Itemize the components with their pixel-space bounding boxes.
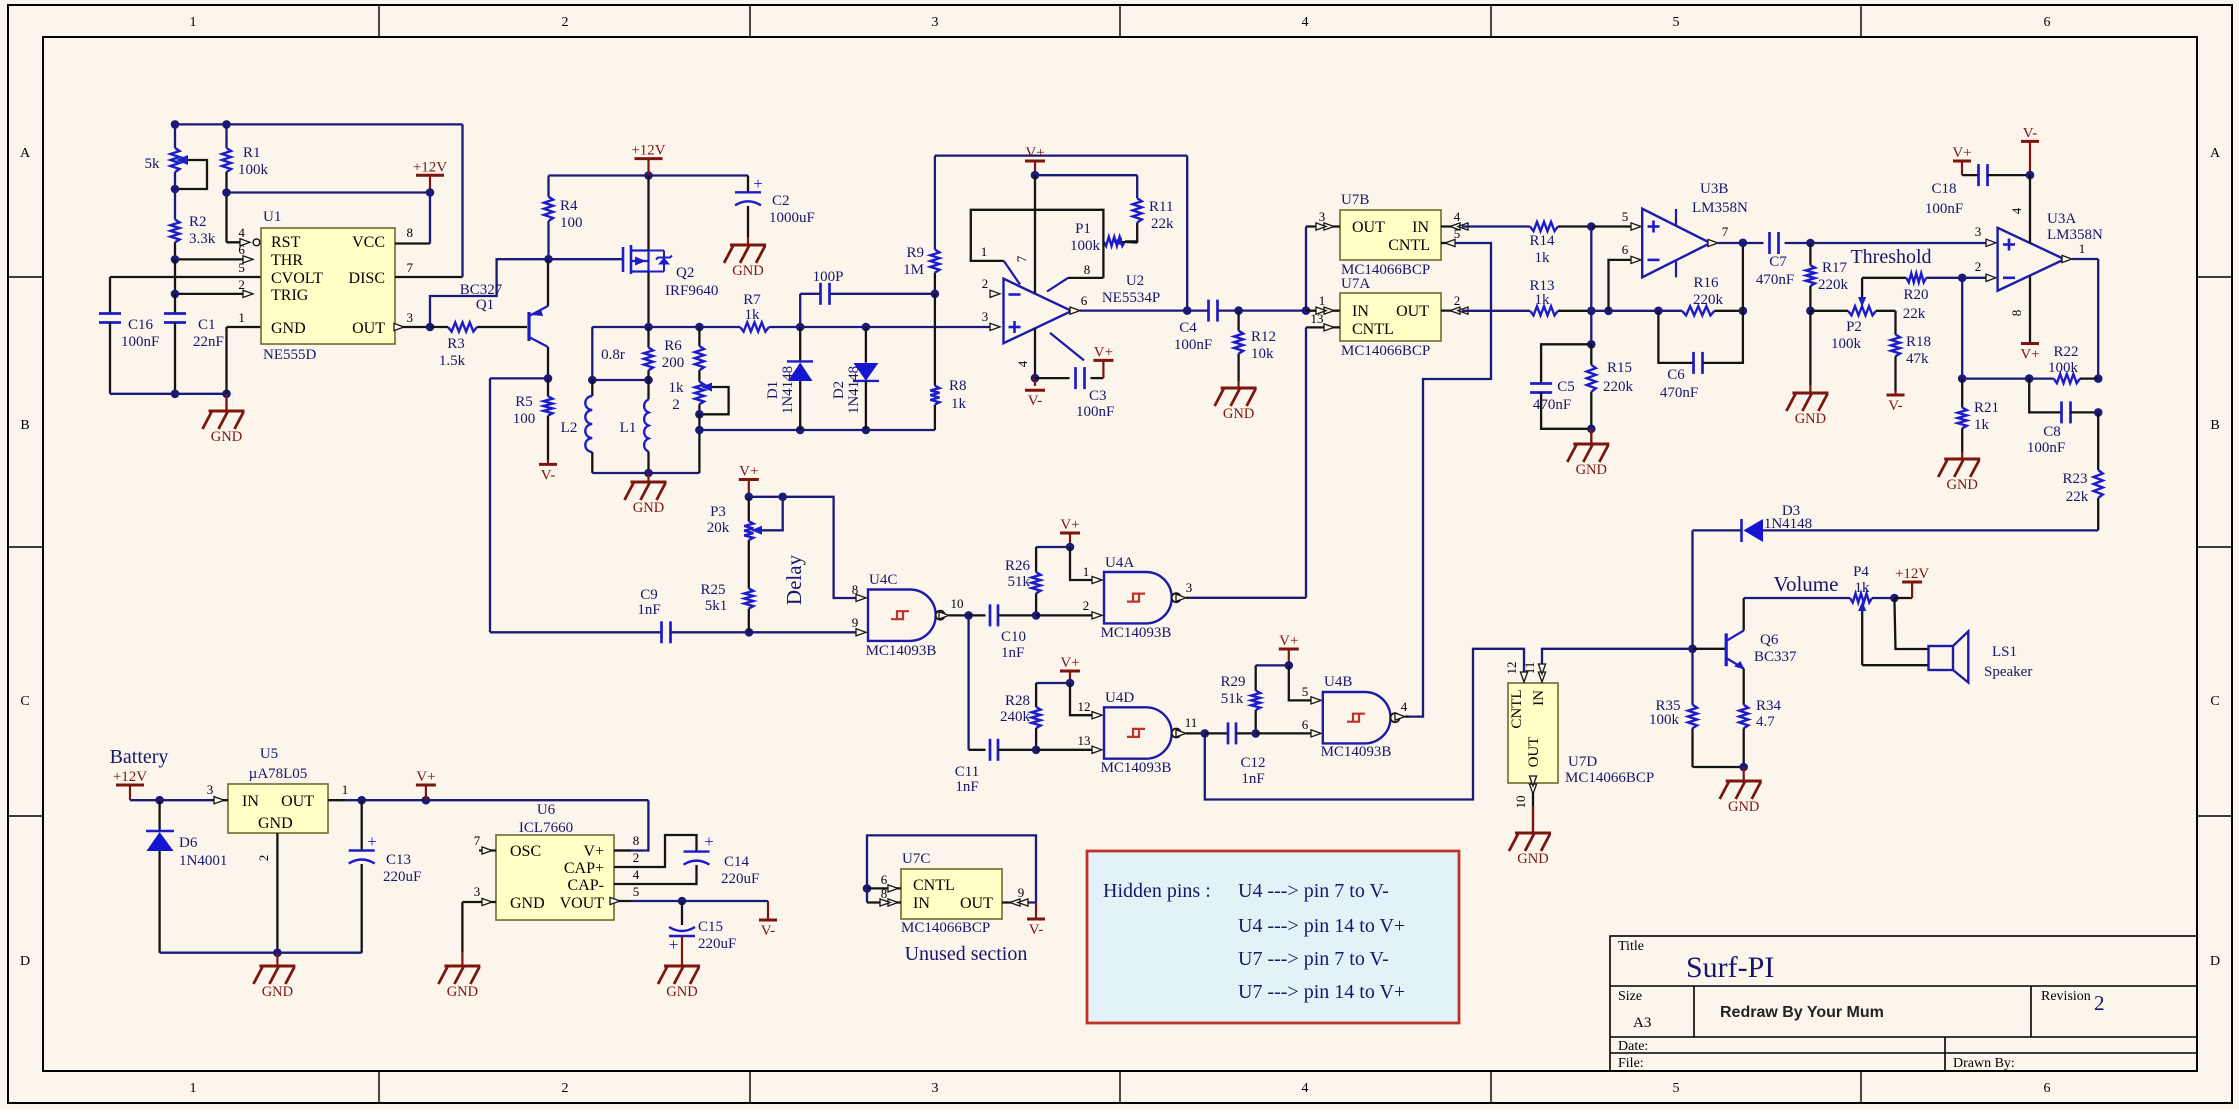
svg-text:1M: 1M xyxy=(903,262,924,278)
svg-text:8: 8 xyxy=(852,582,859,597)
svg-text:VCC: VCC xyxy=(352,234,385,251)
svg-text:Hidden pins :: Hidden pins : xyxy=(1103,880,1211,902)
wire gate node xyxy=(549,258,624,260)
wire top rail 555 xyxy=(175,123,463,125)
power V+ (U4B) xyxy=(1279,648,1299,651)
svg-text:V+: V+ xyxy=(739,464,758,480)
opamp U3B LM358N xyxy=(1642,209,1710,278)
svg-text:LM358N: LM358N xyxy=(1692,200,1748,216)
svg-text:8: 8 xyxy=(406,225,413,240)
svg-text:V-: V- xyxy=(1029,922,1043,938)
diode D3 1N4148 xyxy=(1744,519,1764,542)
wire U7C loop xyxy=(867,835,1036,902)
wire C11 to pin13 xyxy=(1036,749,1093,751)
capacitor C10 xyxy=(969,614,986,616)
svg-text:1N4148: 1N4148 xyxy=(780,366,796,414)
junction Q1 emitter xyxy=(544,374,553,383)
ic U7A MC14066BCP xyxy=(1340,293,1441,341)
pin 8 U6 xyxy=(614,849,631,851)
junction C9 xyxy=(745,628,754,637)
svg-text:V+: V+ xyxy=(1025,145,1044,161)
svg-text:Q6: Q6 xyxy=(1760,632,1779,648)
pin 7 U6 xyxy=(479,849,496,851)
svg-text:R16: R16 xyxy=(1693,275,1719,291)
svg-text:MC14093B: MC14093B xyxy=(1321,744,1392,760)
svg-text:NE555D: NE555D xyxy=(263,347,316,363)
trimmer 1k-2 xyxy=(695,382,704,405)
svg-text:13: 13 xyxy=(1078,733,1091,748)
capacitor C2 xyxy=(747,176,749,193)
svg-text:V-: V- xyxy=(1888,398,1902,414)
svg-text:OUT: OUT xyxy=(960,895,993,912)
junction C5-R15 xyxy=(1587,425,1596,434)
junction top rail left xyxy=(171,120,180,129)
svg-text:220k: 220k xyxy=(1818,277,1849,293)
svg-text:C13: C13 xyxy=(386,852,411,868)
svg-text:Size: Size xyxy=(1618,989,1642,1004)
svg-text:V+: V+ xyxy=(1279,633,1298,649)
svg-text:6: 6 xyxy=(1081,293,1088,308)
wire to U6 pin8 xyxy=(614,800,648,850)
wire C10 to pin2 xyxy=(1036,614,1093,616)
svg-text:10k: 10k xyxy=(1251,346,1274,362)
ground GND (U5) xyxy=(276,953,278,966)
pin 3 output U4A xyxy=(1176,594,1186,601)
junction C8 xyxy=(2094,408,2103,417)
svg-text:2: 2 xyxy=(982,276,989,291)
diode D6 1N4001 xyxy=(158,800,160,831)
svg-text:P4: P4 xyxy=(1853,564,1869,580)
svg-text:470nF: 470nF xyxy=(1660,385,1698,401)
svg-text:C14: C14 xyxy=(724,854,750,870)
pin 6 THR arrow xyxy=(243,256,253,263)
svg-text:CNTL: CNTL xyxy=(1352,321,1394,338)
wire V+ to pin5 xyxy=(1289,665,1313,700)
svg-text:D: D xyxy=(20,954,30,969)
wire V+ to pin1 xyxy=(1070,547,1094,580)
svg-text:2: 2 xyxy=(633,850,640,865)
transistor Q1 BC327 xyxy=(527,312,530,341)
pin 1 U4A xyxy=(1092,576,1102,583)
svg-text:220uF: 220uF xyxy=(721,871,759,887)
svg-text:Threshold: Threshold xyxy=(1850,246,1931,268)
svg-text:R3: R3 xyxy=(447,336,465,352)
svg-text:U3B: U3B xyxy=(1700,181,1728,197)
svg-text:2: 2 xyxy=(256,855,271,862)
svg-text:4: 4 xyxy=(238,225,245,240)
wire P3 bracket xyxy=(749,497,783,531)
power V+ (U4D) xyxy=(1060,670,1080,673)
svg-text:1k: 1k xyxy=(1535,250,1551,266)
wire U7B cntl xyxy=(1409,243,1491,717)
pin 4 stub U2 xyxy=(1034,328,1036,378)
svg-text:BC337: BC337 xyxy=(1754,649,1797,665)
svg-text:5k: 5k xyxy=(145,156,161,172)
svg-text:6: 6 xyxy=(2044,15,2051,30)
svg-text:NE5534P: NE5534P xyxy=(1102,290,1160,306)
junction R17 xyxy=(1806,307,1815,316)
wire GND pin1 xyxy=(227,326,262,328)
wire gnd rail 555 xyxy=(110,393,227,395)
wire CVOLT xyxy=(110,276,261,278)
svg-text:C5: C5 xyxy=(1557,379,1575,395)
svg-text:GND: GND xyxy=(510,895,545,912)
svg-text:1000uF: 1000uF xyxy=(769,210,815,226)
svg-text:2: 2 xyxy=(2094,991,2105,1015)
svg-text:U7B: U7B xyxy=(1341,192,1369,208)
junction Q6 base xyxy=(1688,645,1697,654)
svg-text:6: 6 xyxy=(2044,1081,2051,1096)
wire R13 node xyxy=(1591,310,1682,312)
svg-text:OUT: OUT xyxy=(352,320,385,337)
power +12V (battery) xyxy=(116,784,144,787)
svg-text:10: 10 xyxy=(1513,796,1528,809)
resistor R28 xyxy=(1035,683,1037,707)
power V+ (C18) xyxy=(1953,160,1971,163)
svg-text:1N4148: 1N4148 xyxy=(1764,516,1812,532)
svg-text:100k: 100k xyxy=(2048,360,2079,376)
svg-text:OUT: OUT xyxy=(1526,737,1542,768)
svg-text:R9: R9 xyxy=(906,245,924,261)
pin 13 U4D xyxy=(1092,746,1102,753)
svg-text:11: 11 xyxy=(1522,662,1537,675)
svg-text:3: 3 xyxy=(982,309,989,324)
svg-text:3: 3 xyxy=(1975,224,1982,239)
svg-text:3: 3 xyxy=(406,310,413,325)
trimmer P2 100k xyxy=(1810,310,1848,312)
svg-text:V+: V+ xyxy=(2020,347,2039,363)
svg-text:1: 1 xyxy=(190,15,197,30)
wire THR xyxy=(175,258,244,260)
svg-text:IN: IN xyxy=(913,895,930,912)
svg-text:R12: R12 xyxy=(1251,329,1276,345)
svg-text:200: 200 xyxy=(662,355,685,371)
svg-text:VOUT: VOUT xyxy=(560,895,605,912)
wire C4 to U7A xyxy=(1239,309,1340,311)
svg-text:Surf-PI: Surf-PI xyxy=(1686,951,1774,984)
pin 8 U4C xyxy=(856,594,866,601)
svg-text:OUT: OUT xyxy=(281,793,314,810)
svg-text:GND: GND xyxy=(1576,462,1607,478)
svg-text:OUT: OUT xyxy=(1396,303,1429,320)
svg-text:R4: R4 xyxy=(560,198,578,214)
svg-text:Volume: Volume xyxy=(1774,572,1839,596)
ground GND (R21) xyxy=(1961,452,1963,459)
svg-text:1k: 1k xyxy=(669,380,685,396)
power V- (R5) xyxy=(547,460,549,464)
svg-text:100nF: 100nF xyxy=(2027,440,2065,456)
svg-text:3: 3 xyxy=(1186,580,1193,595)
svg-text:+: + xyxy=(704,832,714,851)
pin 11 output U4D xyxy=(1176,730,1186,737)
svg-text:4: 4 xyxy=(1302,1081,1309,1096)
capacitor C8 loop xyxy=(2029,379,2061,413)
junction P4 xyxy=(1890,594,1899,603)
resistor R12 xyxy=(1237,311,1239,331)
power V+ (C3) xyxy=(1093,359,1113,362)
wire P2 wiper to R20 xyxy=(1862,277,1906,279)
svg-text:U5: U5 xyxy=(260,746,278,762)
svg-text:5k1: 5k1 xyxy=(705,598,728,614)
pin 8 whisker U2 xyxy=(1068,277,1103,279)
wire U7A cntl to U4A out xyxy=(1305,327,1307,597)
ground GND (Q6) xyxy=(1743,767,1745,781)
wire speaker bottom xyxy=(1862,664,1928,666)
svg-text:100k: 100k xyxy=(238,162,269,178)
svg-text:22nF: 22nF xyxy=(193,334,224,350)
pin 12 U7D xyxy=(1520,672,1527,682)
svg-text:1nF: 1nF xyxy=(955,779,978,795)
wire inverting node xyxy=(1961,278,1963,379)
nand U4B MC14093B xyxy=(1323,692,1391,743)
capacitor C7 xyxy=(1768,232,1771,254)
svg-text:1: 1 xyxy=(342,782,349,797)
wire V+ to R11 xyxy=(1035,174,1137,176)
resistor R23 xyxy=(2097,412,2099,470)
svg-text:6: 6 xyxy=(238,242,245,257)
ic U6 ICL7660 xyxy=(496,835,614,920)
power V- (R18) xyxy=(1894,391,1896,395)
svg-text:Delay: Delay xyxy=(782,554,806,605)
svg-text:U4 ---> pin 7 to V-: U4 ---> pin 7 to V- xyxy=(1238,880,1389,902)
svg-text:R20: R20 xyxy=(1903,287,1928,303)
capacitor 100P xyxy=(800,293,820,295)
grid row dividers xyxy=(8,277,2232,816)
svg-text:100k: 100k xyxy=(1070,238,1101,254)
pin 5 U6 xyxy=(614,900,631,902)
pin 6 U4B xyxy=(1311,730,1321,737)
svg-text:Q2: Q2 xyxy=(676,265,694,281)
svg-text:100: 100 xyxy=(513,411,536,427)
svg-text:3: 3 xyxy=(207,782,214,797)
svg-text:+12V: +12V xyxy=(113,769,147,785)
capacitor C16 xyxy=(99,312,121,315)
svg-text:2: 2 xyxy=(672,397,680,413)
svg-text:DISC: DISC xyxy=(349,270,385,287)
power +12V (U1) xyxy=(416,174,444,177)
resistor R2 xyxy=(170,220,179,243)
svg-text:8: 8 xyxy=(2009,310,2024,317)
inductor L1 xyxy=(647,380,649,400)
svg-text:1N4001: 1N4001 xyxy=(179,853,227,869)
svg-text:MC14093B: MC14093B xyxy=(866,643,937,659)
resistor R18 xyxy=(1876,310,1896,312)
svg-text:MC14066BCP: MC14066BCP xyxy=(1565,770,1654,786)
pin 2 U6 xyxy=(614,866,631,868)
capacitor C9 xyxy=(660,621,663,643)
pin 1 U5 xyxy=(328,799,345,801)
wire emitter to C9 xyxy=(490,377,548,379)
svg-text:10: 10 xyxy=(951,596,964,611)
capacitor C6 loop xyxy=(1658,311,1693,363)
svg-text:V+: V+ xyxy=(1094,344,1113,360)
mosfet Q2 body zener xyxy=(649,250,665,252)
svg-text:2: 2 xyxy=(238,277,245,292)
svg-text:CNTL: CNTL xyxy=(1509,689,1525,728)
capacitor C12 xyxy=(1205,732,1228,734)
resistor R29 xyxy=(1255,665,1257,690)
svg-text:9: 9 xyxy=(852,615,859,630)
svg-text:R28: R28 xyxy=(1005,693,1030,709)
svg-text:P3: P3 xyxy=(710,504,726,520)
power V+ (U5 out) xyxy=(416,784,436,787)
junction R34 xyxy=(1739,763,1748,772)
nand U4C MC14093B xyxy=(868,590,936,641)
svg-text:100k: 100k xyxy=(1831,336,1862,352)
svg-text:R17: R17 xyxy=(1822,260,1848,276)
svg-text:R2: R2 xyxy=(189,214,207,230)
svg-text:V-: V- xyxy=(541,467,555,483)
svg-text:22k: 22k xyxy=(1903,306,1926,322)
pin 7 DISC stub xyxy=(395,276,463,278)
svg-text:C10: C10 xyxy=(1001,629,1026,645)
svg-text:IN: IN xyxy=(242,793,259,810)
svg-text:1k: 1k xyxy=(1535,292,1551,308)
svg-text:Battery: Battery xyxy=(110,746,169,768)
junction R21-R22 row xyxy=(1958,374,1967,383)
svg-text:+: + xyxy=(367,832,377,851)
svg-text:U2: U2 xyxy=(1126,273,1144,289)
svg-text:U7 ---> pin 14 to V+: U7 ---> pin 14 to V+ xyxy=(1238,981,1405,1003)
svg-text:Title: Title xyxy=(1618,939,1644,954)
svg-text:File:: File: xyxy=(1618,1056,1644,1071)
svg-text:THR: THR xyxy=(271,252,303,269)
svg-text:5: 5 xyxy=(1622,209,1629,224)
power +12V (P4) xyxy=(1894,597,1912,599)
resistor R35 xyxy=(1691,649,1693,705)
resistor R11 xyxy=(1133,198,1142,222)
svg-text:4: 4 xyxy=(1302,15,1309,30)
svg-text:7: 7 xyxy=(474,833,481,848)
svg-text:100nF: 100nF xyxy=(1925,201,1963,217)
ic U7D MC14066BCP xyxy=(1508,683,1558,783)
svg-text:D6: D6 xyxy=(179,835,198,851)
wire base stub xyxy=(1693,648,1727,650)
pin 1 whisker U2 xyxy=(1004,261,1020,285)
svg-text:IN: IN xyxy=(1352,303,1369,320)
grid column dividers top xyxy=(379,5,1861,1103)
svg-text:5: 5 xyxy=(238,260,245,275)
svg-text:U7C: U7C xyxy=(902,851,930,867)
power V- (U3A top) xyxy=(2021,140,2039,143)
svg-text:U4A: U4A xyxy=(1105,555,1134,571)
svg-text:L1: L1 xyxy=(620,420,637,436)
transistor Q6 BC337 xyxy=(1725,633,1728,666)
wire OUT to gate node xyxy=(430,259,549,327)
svg-text:C3: C3 xyxy=(1089,388,1107,404)
svg-text:100nF: 100nF xyxy=(1174,337,1212,353)
svg-text:C12: C12 xyxy=(1240,755,1265,771)
diode D1 1N4148 xyxy=(799,327,801,361)
resistor R21 xyxy=(1961,379,1963,408)
svg-text:4: 4 xyxy=(2009,207,2024,214)
wire P3 to U4C pin8 xyxy=(783,497,858,598)
resistor R8 xyxy=(934,294,936,386)
power tick U3B top xyxy=(1675,209,1677,226)
resistor R7 xyxy=(740,322,769,331)
svg-text:1k: 1k xyxy=(1974,417,1990,433)
svg-text:V+: V+ xyxy=(1060,517,1079,533)
svg-text:C18: C18 xyxy=(1931,181,1956,197)
svg-text:1: 1 xyxy=(2079,241,2086,256)
svg-text:220uF: 220uF xyxy=(383,869,421,885)
pin 13 U7A stub xyxy=(1306,326,1340,328)
wire volume row xyxy=(1744,597,1850,599)
svg-text:3.3k: 3.3k xyxy=(189,231,216,247)
svg-text:GND: GND xyxy=(447,984,478,1000)
pin 4 U6 xyxy=(614,883,631,885)
power V+ (U3A bottom) xyxy=(2021,342,2039,345)
svg-text:TRIG: TRIG xyxy=(271,287,309,304)
svg-text:C6: C6 xyxy=(1667,367,1685,383)
svg-text:220k: 220k xyxy=(1603,379,1634,395)
power V- (U6 out) xyxy=(767,901,769,920)
resistor R22 xyxy=(2054,374,2080,383)
ground GND (C15) xyxy=(664,965,700,968)
svg-text:P2: P2 xyxy=(1846,319,1862,335)
wire vout row xyxy=(631,900,768,902)
wire pin6 elbow xyxy=(1609,260,1632,311)
svg-text:V+: V+ xyxy=(583,843,604,860)
svg-text:GND: GND xyxy=(1728,799,1759,815)
svg-text:GND: GND xyxy=(666,984,697,1000)
pin 4 stub U3A xyxy=(2029,175,2031,243)
wire U6 gnd xyxy=(461,902,463,953)
resistor R5 xyxy=(547,378,549,396)
svg-text:1N4148: 1N4148 xyxy=(846,366,862,414)
junction U4D out xyxy=(1201,729,1210,738)
svg-text:12: 12 xyxy=(1078,699,1091,714)
capacitor C15 xyxy=(681,901,683,925)
svg-text:D1: D1 xyxy=(765,381,781,399)
power V+ (P3) xyxy=(739,478,759,481)
ic U1 NE555D xyxy=(261,228,395,344)
wire R14 to pin5 xyxy=(1591,225,1631,227)
pin 10 output U4C xyxy=(939,612,949,619)
svg-text:1: 1 xyxy=(981,244,988,259)
pin 4 output U4B xyxy=(1395,713,1405,720)
svg-text:2: 2 xyxy=(562,1081,569,1096)
pin 4 U7B stub xyxy=(1441,225,1462,227)
svg-text:C: C xyxy=(2210,694,2219,709)
svg-text:GND: GND xyxy=(1946,477,1977,493)
svg-text:R23: R23 xyxy=(2062,471,2087,487)
svg-text:CVOLT: CVOLT xyxy=(271,270,323,287)
svg-text:C9: C9 xyxy=(640,587,658,603)
junction R16 out xyxy=(1739,307,1748,316)
junction U2 out xyxy=(1183,306,1192,315)
junction C18 xyxy=(2026,171,2035,180)
title block frame xyxy=(1610,936,2197,1071)
junction C7 xyxy=(1806,239,1815,248)
whisker comp U2 xyxy=(1050,333,1084,361)
wire U7D in row xyxy=(1542,649,1693,676)
wire V+ to R29 xyxy=(1256,664,1289,666)
junction R14 xyxy=(1587,222,1596,231)
junction R29 xyxy=(1251,729,1260,738)
wire R14-R13 tie xyxy=(1590,227,1592,345)
wire +12V rail Q2 xyxy=(549,174,749,176)
svg-text:47k: 47k xyxy=(1906,351,1929,367)
pin 5 U7B stub xyxy=(1441,242,1455,244)
svg-text:6: 6 xyxy=(1302,717,1309,732)
svg-text:C: C xyxy=(20,694,29,709)
svg-text:Redraw By Your Mum: Redraw By Your Mum xyxy=(1720,1004,1884,1021)
svg-text:CNTL: CNTL xyxy=(913,877,955,894)
svg-text:7: 7 xyxy=(406,260,413,275)
pin 7 stub U2 xyxy=(1034,175,1036,293)
wire P1 pin1 loop xyxy=(971,210,1104,278)
